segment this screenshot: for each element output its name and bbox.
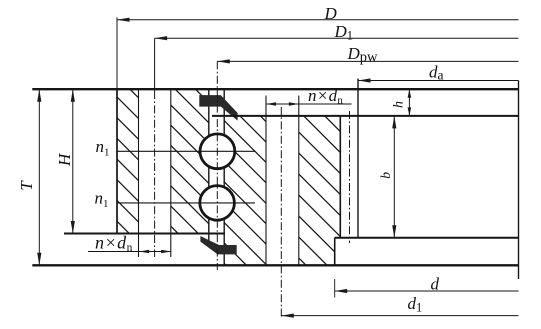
svg-text:T: T bbox=[17, 180, 36, 191]
wire left hole edge right bbox=[170, 89, 172, 257]
dimension line D1 bbox=[155, 37, 519, 39]
dimension line D bbox=[117, 19, 519, 21]
dimension line b bbox=[393, 116, 395, 238]
wire right-ring top line bbox=[212, 115, 519, 117]
svg-text:b: b bbox=[378, 172, 393, 179]
ball upper bbox=[200, 134, 235, 169]
wire raceway gap line right bbox=[223, 89, 225, 265]
dimension line Dpw bbox=[217, 60, 518, 62]
leader n1 lower ball centerline bbox=[117, 202, 255, 204]
centerline right bolt hole / d1 extension bbox=[280, 107, 282, 318]
leader n1 upper ball centerline bbox=[117, 150, 255, 152]
dimension line d1 bbox=[281, 315, 518, 317]
wire right hole edge right bbox=[298, 96, 300, 266]
wire gear tip line / d_a extension bbox=[357, 79, 359, 238]
ball lower bbox=[200, 186, 235, 221]
wire right break edge bbox=[518, 81, 520, 280]
wire bottom recess corner bbox=[334, 238, 336, 266]
wire left ring outer edge bbox=[116, 89, 118, 233]
wire raceway gap line left bbox=[208, 89, 210, 244]
wire left hole edge left bbox=[138, 89, 140, 257]
dimension line n x dn (bottom) bbox=[88, 251, 171, 253]
wire main bottom line bbox=[32, 264, 518, 266]
dimension line n x dn (top) bbox=[266, 103, 352, 105]
hatch inner-ring right band bbox=[294, 85, 346, 305]
hatch outer-ring left band bbox=[112, 51, 144, 269]
wire right hole edge left bbox=[265, 96, 267, 266]
svg-text:H: H bbox=[55, 152, 74, 167]
dimension line h bbox=[408, 89, 410, 116]
dimension line d_a bbox=[358, 80, 519, 82]
wire gear root line bbox=[339, 116, 341, 238]
hatch inner-ring left band bbox=[219, 75, 271, 310]
dimension line H bbox=[72, 89, 74, 233]
centerline ball column / Dpw extension bbox=[216, 61, 218, 270]
svg-text:D: D bbox=[324, 4, 338, 23]
wire left-ring bottom line bbox=[64, 233, 225, 235]
centerline gear pitch line bbox=[349, 111, 351, 243]
hatch outer-ring right band bbox=[166, 39, 214, 269]
svg-text:h: h bbox=[392, 101, 407, 108]
dimension line d bbox=[335, 290, 519, 292]
dimension line T bbox=[38, 89, 40, 265]
wire bottom-right shoulder line bbox=[335, 237, 519, 239]
wire top surface line bbox=[32, 88, 518, 90]
plug top (filled wedge) bbox=[199, 95, 237, 121]
svg-text:d: d bbox=[431, 274, 440, 293]
wire d extension below bottom bbox=[334, 279, 336, 298]
plug bottom (filled wedge) bbox=[200, 236, 236, 254]
wire left ring outer edge ext bbox=[116, 17, 118, 89]
centerline left bolt hole / D1 extension bbox=[154, 38, 156, 91]
